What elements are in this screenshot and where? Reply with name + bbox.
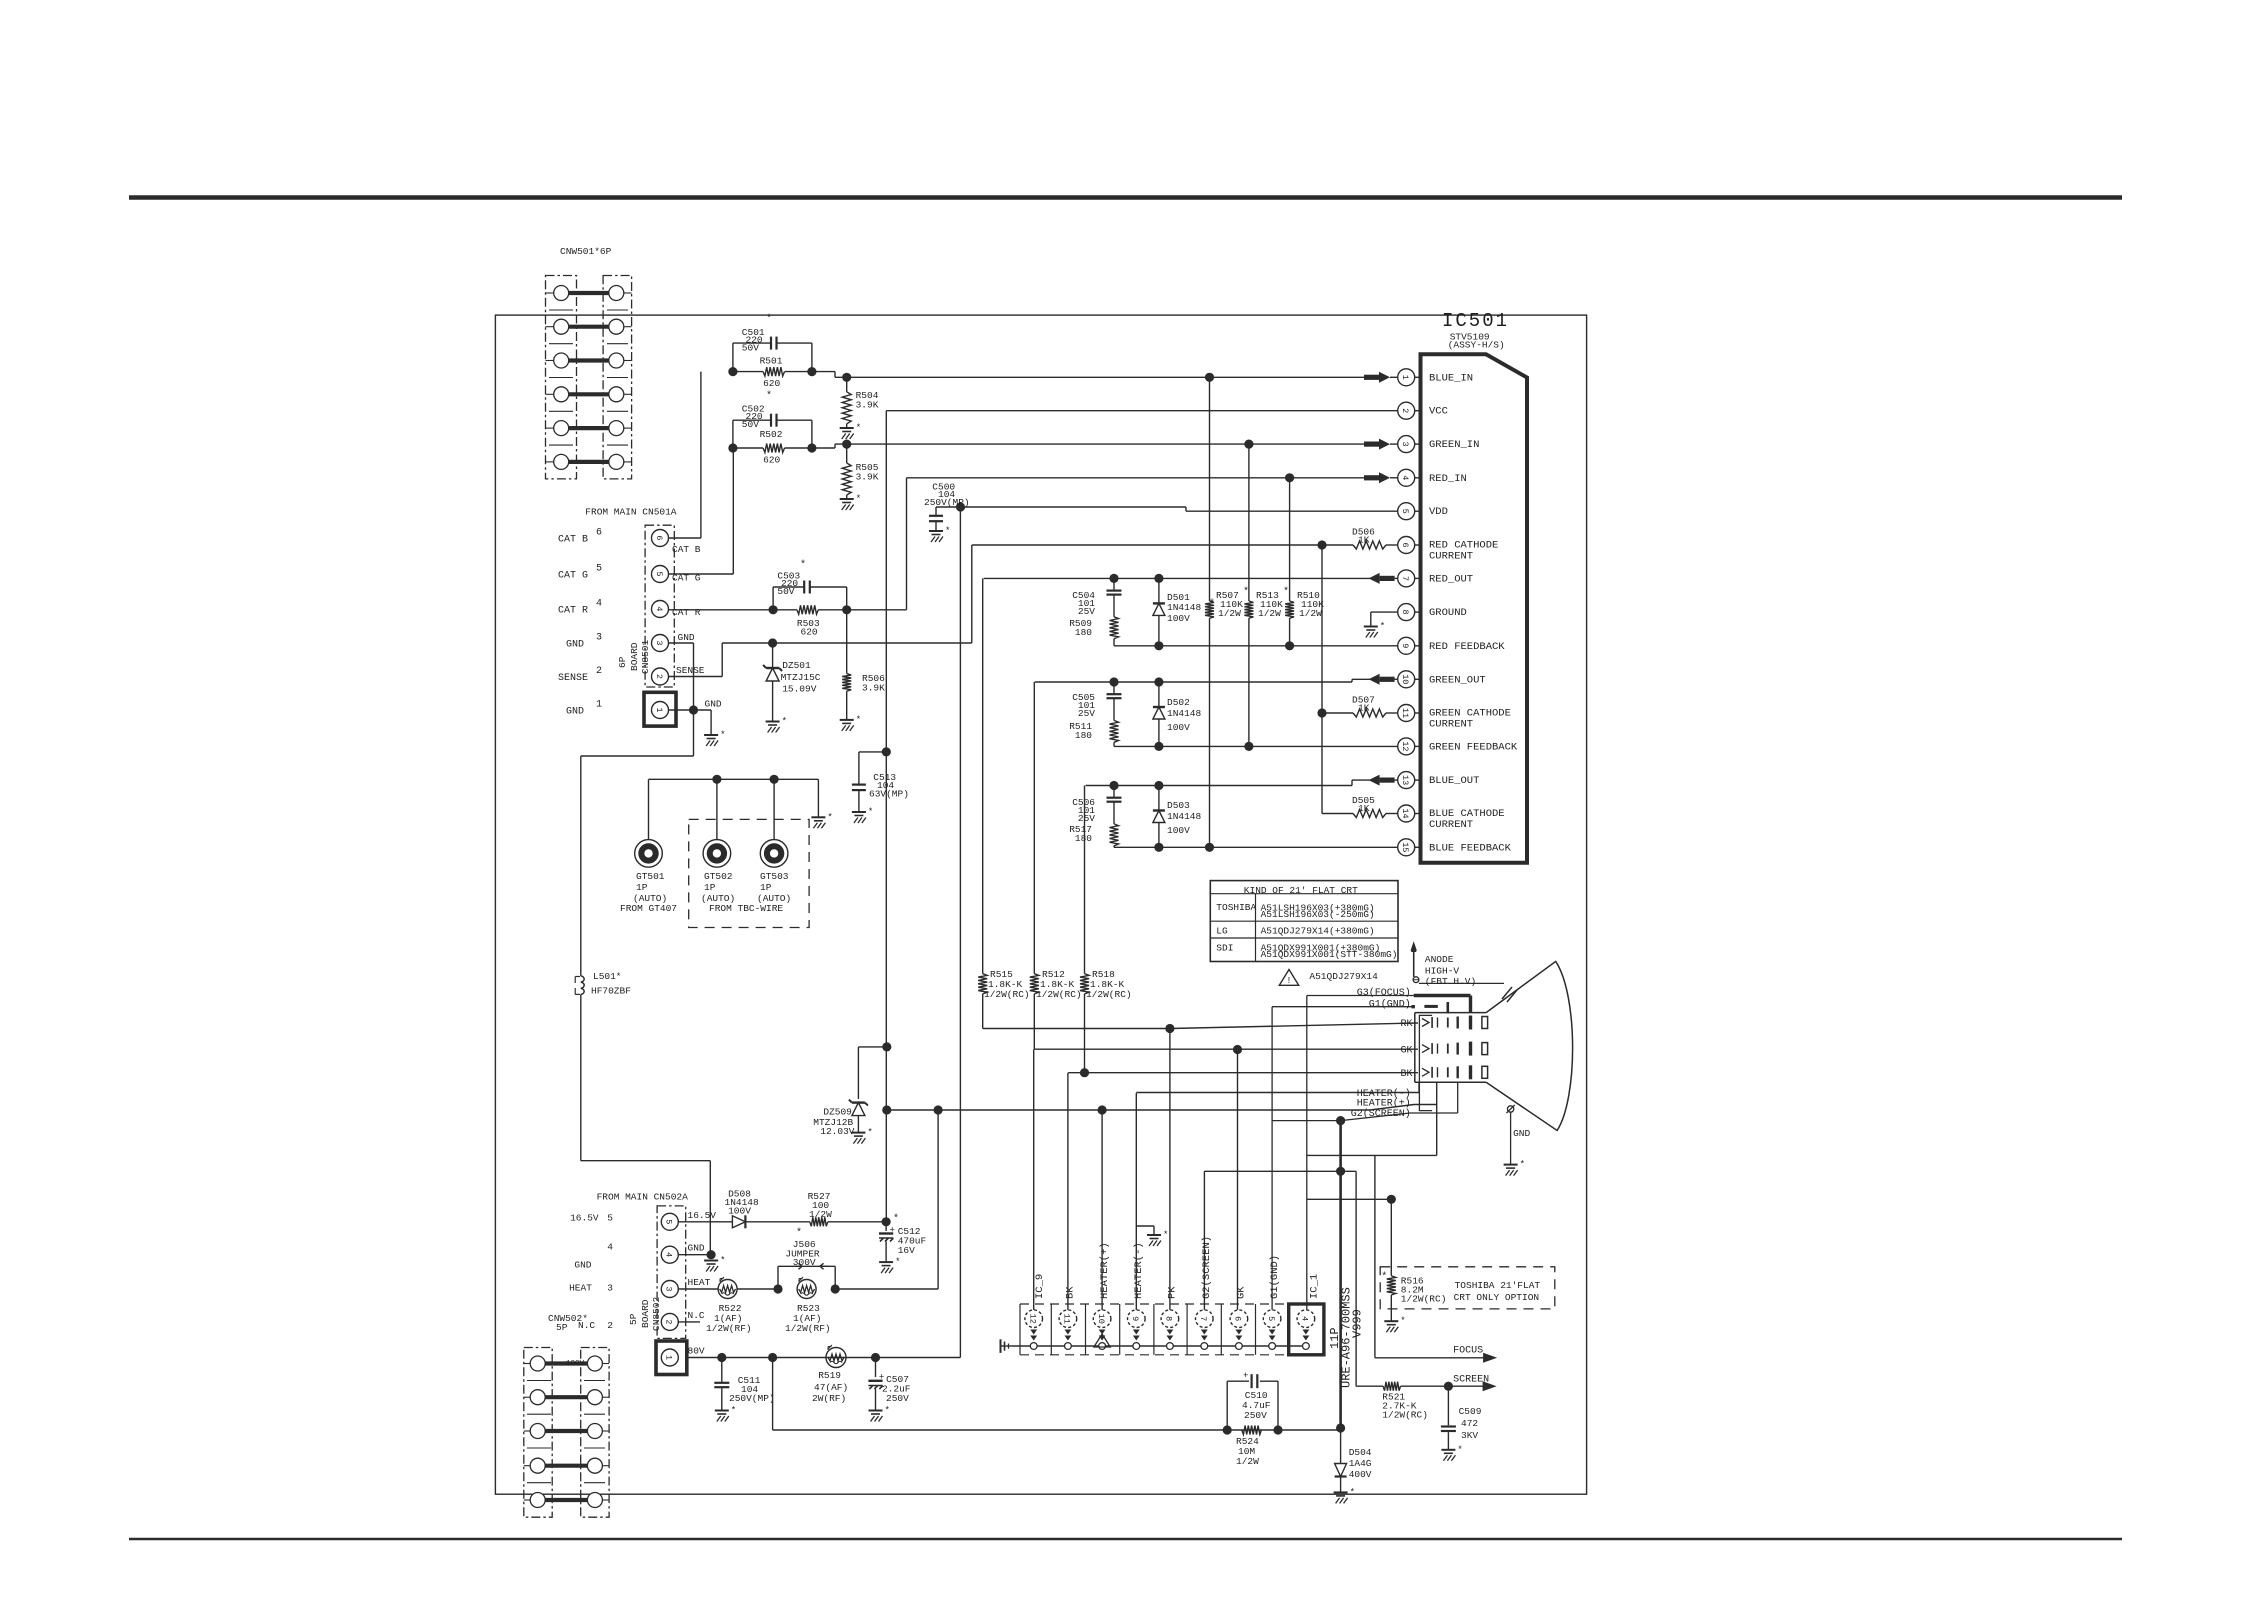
svg-text:*: * [856, 494, 861, 504]
node RED_IN R510 [1285, 473, 1294, 482]
CN8501 pin name GND1 [705, 699, 722, 710]
svg-text:250V(MP): 250V(MP) [729, 1393, 775, 1404]
capacitor C513 [852, 772, 909, 812]
resistor R513 110K [1244, 444, 1289, 746]
node red fb R510 [1285, 641, 1294, 650]
svg-text:GK: GK [1400, 1045, 1412, 1056]
node GREEN_IN R513 [1244, 440, 1253, 449]
red block C504 R509 D501 [1069, 574, 1215, 651]
node heater drop [934, 1105, 943, 1114]
svg-text:RED FEEDBACK: RED FEEDBACK [1429, 641, 1505, 653]
svg-text:14: 14 [1400, 808, 1410, 818]
svg-text:!: ! [1286, 976, 1291, 986]
wire 16.5V [678, 1221, 732, 1223]
svg-text:3: 3 [607, 1283, 613, 1294]
node RK socket [1165, 1024, 1174, 1033]
CN8501 pin 4 (CAT R) [558, 599, 669, 618]
svg-text:A51LSH196X03(-250mG): A51LSH196X03(-250mG) [1261, 909, 1375, 920]
svg-text:5P: 5P [628, 1313, 639, 1325]
svg-text:CRT ONLY OPTION: CRT ONLY OPTION [1454, 1292, 1540, 1303]
node heater vcc [882, 1105, 891, 1114]
svg-text:620: 620 [763, 455, 780, 466]
label RK [1400, 1019, 1412, 1030]
svg-text:15.09V: 15.09V [782, 684, 817, 695]
ground on GND net [704, 730, 725, 746]
wire G2 left branch [1272, 1120, 1341, 1122]
zener DZ501 [763, 643, 821, 722]
node R516 top [1387, 1195, 1396, 1204]
wire GT rail [649, 779, 819, 817]
svg-text:PK: PK [1167, 1286, 1179, 1299]
svg-text:1N4148: 1N4148 [1167, 708, 1202, 719]
node R503 left [769, 605, 778, 614]
svg-text:*: * [827, 812, 832, 822]
svg-text:GT502: GT502 [704, 871, 733, 882]
wire SENSE from pin2 [669, 643, 972, 677]
CN8502 left labels [548, 1213, 613, 1333]
CN8501 pin name CAT B [672, 544, 701, 555]
svg-text:R502: R502 [760, 429, 783, 440]
green block C505 R511 D502 [1069, 677, 1201, 751]
svg-text:1: 1 [654, 707, 664, 712]
node R502 right [807, 443, 816, 452]
socket label G1(GND) [1269, 1255, 1281, 1299]
svg-text:LG: LG [1216, 925, 1228, 936]
resistor R515 1.8K-K [978, 578, 1029, 1028]
IC501 pin 9 RED FEEDBACK [1398, 637, 1506, 654]
svg-text:1/2W(RC): 1/2W(RC) [984, 989, 1030, 1000]
node R501 right [807, 367, 816, 376]
wire socket pin11 riser BK [1067, 1073, 1069, 1310]
svg-text:2: 2 [596, 666, 602, 677]
svg-text:5: 5 [607, 1213, 613, 1224]
svg-text:4: 4 [1400, 475, 1410, 480]
wire BLUE_IN line [812, 372, 1379, 378]
svg-text:BLUE_IN: BLUE_IN [1429, 372, 1473, 384]
svg-text:1/2W: 1/2W [1258, 608, 1281, 619]
svg-text:620: 620 [763, 378, 780, 389]
svg-text:*: * [1283, 586, 1289, 598]
wire C513 branch [859, 752, 886, 785]
resistor R518 1.8K-K [1080, 786, 1132, 1073]
svg-text:GT503: GT503 [760, 871, 789, 882]
node 80V C507 [871, 1353, 880, 1362]
svg-text:25V: 25V [1078, 708, 1095, 719]
wire VCC line [886, 411, 1397, 1222]
svg-text:FOCUS: FOCUS [1453, 1345, 1483, 1356]
connector CNW501 6P [546, 246, 632, 479]
node G2 crt [1336, 1116, 1345, 1125]
CRT socket pin row [1001, 1310, 1315, 1353]
svg-text:5: 5 [654, 571, 664, 576]
ground under C511 [715, 1406, 736, 1422]
svg-text:SCREEN: SCREEN [1453, 1374, 1489, 1385]
node D504 [1336, 1423, 1345, 1432]
ground under R506 [840, 715, 861, 731]
svg-text:1/2W(RC): 1/2W(RC) [1086, 989, 1132, 1000]
svg-text:*: * [1520, 1160, 1525, 1170]
svg-text:HEATER(+): HEATER(+) [1357, 1097, 1411, 1109]
svg-text:CAT R: CAT R [558, 606, 588, 617]
svg-text:180: 180 [1075, 627, 1092, 638]
svg-text:47(AF): 47(AF) [814, 1382, 848, 1393]
svg-text:1/2W(RC): 1/2W(RC) [1036, 989, 1082, 1000]
svg-text:V999: V999 [1351, 1309, 1365, 1338]
svg-text:1/2W: 1/2W [1218, 608, 1241, 619]
arrow out pin13 [1369, 775, 1398, 786]
svg-text:(FBT H.V): (FBT H.V) [1425, 976, 1476, 987]
capacitor C502 [733, 390, 812, 448]
ground under C507 [869, 1406, 890, 1422]
CRT V999 envelope [1415, 961, 1573, 1130]
wire SCREEN line [1204, 1171, 1356, 1386]
IC501 pin 2 VCC [1398, 402, 1448, 419]
svg-text:1/2W(RC): 1/2W(RC) [1382, 1410, 1428, 1421]
wire GK rail [1034, 1048, 1418, 1050]
svg-text:*: * [720, 1256, 725, 1266]
resistor R503 [773, 605, 847, 637]
svg-text:HIGH-V: HIGH-V [1425, 965, 1460, 976]
svg-text:*: * [945, 526, 950, 536]
resistor D507 1K [1322, 695, 1398, 718]
wire GND pin3 down [669, 643, 694, 710]
wire socket pin8 riser [1169, 1029, 1171, 1310]
svg-text:1P: 1P [760, 882, 772, 893]
wire GREEN_IN line [812, 444, 1379, 448]
arrow into pin3 [1364, 439, 1398, 450]
wire GREEN FEEDBACK rail [1114, 745, 1398, 747]
svg-text:1K: 1K [1358, 803, 1370, 814]
svg-text:*: * [893, 1213, 899, 1225]
svg-text:25V: 25V [1078, 606, 1095, 617]
svg-text:50V: 50V [742, 419, 759, 430]
label GT501 [633, 871, 667, 904]
resistor R502 [733, 429, 812, 466]
node BLUE_IN R507 [1205, 373, 1214, 382]
svg-text:CAT R: CAT R [672, 607, 701, 618]
svg-text:5: 5 [1400, 509, 1410, 514]
socket label HEATER(-) [1133, 1242, 1145, 1299]
wire RK rail [983, 1023, 1418, 1029]
resistor R507 110K [1205, 377, 1249, 847]
svg-text:CN8502: CN8502 [651, 1296, 662, 1331]
page top rule [129, 195, 2122, 200]
svg-text:IC_1: IC_1 [1309, 1274, 1321, 1299]
svg-text:*: * [720, 730, 725, 740]
svg-text:BK: BK [1065, 1286, 1077, 1299]
svg-text:*: * [1380, 622, 1385, 632]
svg-text:12: 12 [1028, 1314, 1038, 1324]
svg-text:6: 6 [1233, 1316, 1243, 1321]
svg-text:16.5V: 16.5V [688, 1210, 717, 1221]
socket partition box [1020, 1304, 1324, 1355]
svg-text:*: * [1400, 1316, 1405, 1326]
svg-text:RED_OUT: RED_OUT [1429, 573, 1473, 585]
svg-text:1A4G: 1A4G [1349, 1458, 1372, 1469]
node screen g2 [1336, 1167, 1345, 1176]
wire CAT B to R501 [669, 372, 701, 538]
resistor R505 [842, 444, 879, 499]
resistor R504 [842, 377, 879, 428]
node VDD 80V [956, 502, 965, 511]
IC501 pin 8 GROUND [1398, 604, 1467, 621]
svg-text:BOARD: BOARD [629, 642, 640, 671]
label ANODE [1425, 954, 1476, 987]
svg-text:GND: GND [574, 1259, 591, 1270]
spark gap GT502 [703, 779, 731, 867]
node C513 [882, 747, 891, 756]
resistor R522 fusible [706, 1277, 752, 1334]
svg-text:2: 2 [654, 674, 664, 679]
svg-text:10: 10 [1096, 1314, 1106, 1324]
svg-text:5: 5 [596, 564, 602, 575]
svg-text:25V: 25V [1078, 813, 1095, 824]
svg-text:6P: 6P [617, 656, 628, 668]
svg-text:100V: 100V [1167, 722, 1190, 733]
svg-text:HEAT: HEAT [688, 1277, 711, 1288]
svg-text:13: 13 [1400, 775, 1410, 785]
socket label BK [1065, 1286, 1077, 1299]
ground under D504 [1334, 1487, 1355, 1503]
svg-text:*: * [1457, 1445, 1462, 1455]
node green fb R513 [1244, 742, 1253, 751]
svg-text:BK: BK [1400, 1069, 1412, 1080]
socket label IC_1 [1309, 1274, 1321, 1299]
svg-text:6: 6 [596, 528, 602, 539]
wire SCREEN out [1448, 1374, 1496, 1391]
svg-text:10: 10 [1400, 674, 1410, 684]
svg-text:CAT B: CAT B [672, 544, 701, 555]
svg-text:472: 472 [1461, 1418, 1478, 1429]
svg-text:DZ501: DZ501 [782, 660, 811, 671]
svg-text:*: * [867, 1128, 872, 1138]
CN8502 pin 5 (16.5V) [661, 1210, 716, 1231]
svg-text:4: 4 [596, 599, 602, 610]
svg-text:*: * [1163, 1230, 1168, 1240]
svg-text:16.5V: 16.5V [570, 1213, 599, 1224]
IC501 pin 4 RED_IN [1398, 469, 1467, 486]
ground at CN8502 [704, 1256, 725, 1272]
IC501 pin 12 GREEN FEEDBACK [1398, 738, 1518, 755]
svg-text:*: * [856, 423, 861, 433]
svg-text:6: 6 [654, 535, 664, 540]
svg-text:VDD: VDD [1429, 506, 1448, 518]
socket label 11P [1328, 1327, 1342, 1349]
svg-text:2: 2 [664, 1319, 674, 1324]
svg-text:80V: 80V [688, 1346, 705, 1357]
svg-text:BOARD: BOARD [640, 1299, 651, 1328]
IC501 pin 1 BLUE_IN [1398, 369, 1473, 386]
svg-text:3: 3 [1400, 442, 1410, 447]
svg-text:*: * [885, 1406, 890, 1416]
svg-text:4: 4 [1300, 1316, 1310, 1321]
svg-text:A51QDJ279X14: A51QDJ279X14 [1309, 971, 1378, 982]
svg-text:5P: 5P [556, 1322, 568, 1333]
svg-text:4: 4 [607, 1241, 613, 1252]
label G3(FOCUS) [1357, 987, 1411, 999]
node C510 left [1223, 1425, 1232, 1434]
resistor R527 100 [808, 1191, 887, 1226]
IC501 pin 7 RED_OUT [1398, 570, 1473, 587]
svg-text:300V: 300V [793, 1257, 816, 1268]
node R501 left [728, 367, 737, 376]
CRT anode lead [1411, 941, 1518, 1002]
wire CN8502 GND [678, 1254, 711, 1256]
ground under R504 [840, 423, 861, 439]
svg-text:CN8501: CN8501 [640, 639, 651, 674]
socket label G2(SCREEN) [1201, 1236, 1213, 1299]
svg-text:50V: 50V [777, 586, 794, 597]
resistor R516 8.2M [1381, 1199, 1446, 1321]
svg-text:DZ509: DZ509 [823, 1107, 852, 1118]
label FROM TBC-WIRE [709, 903, 783, 914]
wire HEATER- rail [1136, 1083, 1419, 1093]
table kind of 21inch flat crt [1210, 881, 1398, 962]
svg-text:1/2W: 1/2W [809, 1209, 832, 1220]
svg-text:1/2W: 1/2W [1236, 1456, 1259, 1467]
CN8502 pin 2 (N.C) [661, 1310, 705, 1331]
svg-text:GND: GND [688, 1243, 705, 1254]
svg-text:HF70ZBF: HF70ZBF [591, 985, 631, 996]
wire sense to pin6 line [972, 545, 1322, 643]
svg-text:1: 1 [1400, 375, 1410, 380]
svg-text:1: 1 [596, 700, 602, 711]
wire BLUE FEEDBACK rail [1114, 846, 1398, 848]
wire socket pin12 riser [1033, 1050, 1035, 1310]
node GT502 [712, 775, 721, 784]
wire heater- gnd stub [1136, 1226, 1154, 1235]
svg-text:15: 15 [1400, 842, 1410, 852]
label GK [1400, 1045, 1412, 1056]
svg-text:2W(RF): 2W(RF) [812, 1393, 846, 1404]
svg-text:G2(SCREEN): G2(SCREEN) [1201, 1236, 1213, 1299]
wire NC stub [678, 1321, 700, 1323]
node BLUE_IN R504 [842, 373, 851, 382]
wire G2 to CRT [1341, 1083, 1458, 1121]
wire HEAT [678, 1288, 718, 1290]
socket label PK [1167, 1286, 1179, 1299]
node DZ509 tap [882, 1042, 891, 1051]
svg-text:VCC: VCC [1429, 406, 1448, 418]
svg-text:SENSE: SENSE [558, 673, 588, 684]
socket label V999 [1351, 1309, 1365, 1338]
connector CN8501 outline [585, 507, 677, 727]
wire BLUE_OUT line [1086, 780, 1379, 785]
wire RED_IN line [847, 478, 1379, 610]
capacitor C512 470uF [879, 1222, 927, 1262]
svg-text:+: + [1243, 1371, 1248, 1381]
node GREEN_IN R505 [842, 440, 851, 449]
svg-text:400V: 400V [1349, 1469, 1372, 1480]
resistor R501 [733, 355, 812, 389]
CN8502 pin 3 (HEAT) [661, 1277, 710, 1298]
CN8502 pin 1 (80V) [661, 1346, 705, 1367]
svg-text:R519: R519 [818, 1370, 841, 1381]
CRT gun electrodes [1419, 1015, 1487, 1110]
svg-text:11: 11 [1400, 708, 1410, 718]
svg-text:1K: 1K [1358, 703, 1370, 714]
svg-text:250V(MP): 250V(MP) [924, 497, 970, 508]
svg-text:*: * [796, 1227, 802, 1239]
capacitor C503 [773, 559, 847, 610]
svg-text:MTZJ15C: MTZJ15C [781, 672, 821, 683]
wire VDD line [936, 507, 1398, 511]
svg-text:FROM TBC-WIRE: FROM TBC-WIRE [709, 903, 783, 914]
CN8501 rotated label 6P BOARD CN8501 [617, 639, 651, 674]
ground on heater minus [1147, 1230, 1168, 1246]
dashed box TBC [689, 819, 809, 927]
wire HEATER+ rail [887, 1105, 1437, 1111]
svg-text:BLUE_OUT: BLUE_OUT [1429, 775, 1479, 787]
svg-text:1K: 1K [1358, 535, 1370, 546]
capacitor C510 [1227, 1371, 1278, 1430]
IC501 pin 11 GREEN CATHODE CURRENT [1398, 705, 1511, 731]
wire RED_OUT line [984, 577, 1379, 579]
capacitor C500 [924, 481, 970, 531]
node D506 tap [1317, 540, 1326, 549]
ground at GT rail [811, 812, 832, 828]
schematic frame border [495, 315, 1586, 1494]
node heater+ socket [1098, 1105, 1107, 1114]
svg-text:7: 7 [1400, 576, 1410, 581]
svg-text:9: 9 [1400, 643, 1410, 648]
svg-text:250V: 250V [1244, 1410, 1267, 1421]
svg-text:FROM MAIN CN502A: FROM MAIN CN502A [597, 1192, 689, 1203]
wire DZ509 branch [858, 1047, 886, 1099]
svg-text:4: 4 [664, 1252, 674, 1257]
socket label IC_9 [1034, 1274, 1046, 1299]
svg-text:50V: 50V [742, 343, 759, 354]
capacitor C507 [868, 1358, 910, 1411]
resistor R506 [842, 610, 885, 720]
capacitor C509 [1441, 1386, 1482, 1450]
svg-text:*: * [731, 1406, 736, 1416]
svg-text:2: 2 [1400, 408, 1410, 413]
svg-text:1P: 1P [704, 882, 716, 893]
svg-text:TOSHIBA: TOSHIBA [1216, 902, 1256, 913]
svg-text:TOSHIBA 21'FLAT: TOSHIBA 21'FLAT [1455, 1280, 1541, 1291]
wire FOCUS out [1375, 1345, 1497, 1362]
socket label HEATER(+) [1099, 1242, 1111, 1299]
svg-text:12.03V: 12.03V [820, 1126, 855, 1137]
svg-text:G1(GND): G1(GND) [1269, 1255, 1281, 1299]
node blue fb R507 [1205, 843, 1214, 852]
svg-text:7: 7 [1198, 1316, 1208, 1321]
node GK socket [1233, 1045, 1242, 1054]
svg-text:SENSE: SENSE [676, 665, 705, 676]
svg-text:RK: RK [1400, 1019, 1412, 1030]
svg-text:3KV: 3KV [1461, 1430, 1478, 1441]
svg-text:*: * [1243, 586, 1249, 598]
svg-text:D502: D502 [1167, 697, 1190, 708]
wire 80V down branch [772, 1358, 774, 1431]
svg-text:CAT B: CAT B [558, 535, 588, 546]
capacitor C511 [714, 1358, 774, 1411]
ground under C500 [929, 526, 950, 542]
svg-text:HEATER(-): HEATER(-) [1133, 1242, 1145, 1299]
inductor L501 HF70ZBF [575, 971, 631, 996]
svg-text:12: 12 [1400, 741, 1410, 751]
svg-text:GND: GND [1513, 1128, 1530, 1139]
page bottom rule [129, 1538, 2122, 1541]
arrow into pin4 [1364, 472, 1398, 483]
svg-text:HEATER(+): HEATER(+) [1099, 1242, 1111, 1299]
dashed box toshiba option [1380, 1267, 1555, 1309]
capacitor C501 [733, 313, 812, 372]
resistor R510 110K [1285, 478, 1324, 646]
svg-text:8: 8 [1164, 1316, 1174, 1321]
wire 80V riser [959, 507, 961, 1358]
